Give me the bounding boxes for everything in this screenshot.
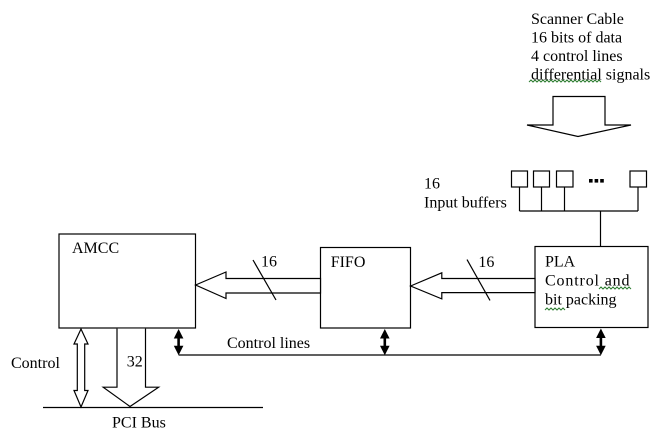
black double arrow PLA to control bus [596,329,606,356]
hollow arrow PLA to FIFO [411,273,535,299]
bus slash 2 [467,260,490,301]
wire buffers to PLA [600,211,602,247]
svg-text:AMCC: AMCC [72,240,119,257]
buffer stub wire 2 [541,187,543,211]
svg-text:PCI Bus: PCI Bus [112,415,166,432]
PCI bus wire [43,407,263,409]
control lines bus wire [179,354,601,356]
buffer bus wire [520,210,639,212]
buffer stub wire 1 [519,187,521,211]
black double arrow FIFO to control bus [380,329,390,355]
grammar squiggle under bit [545,308,565,310]
scanner cable caption [531,11,650,84]
svg-text:16 bits of data: 16 bits of data [531,30,622,47]
svg-text:16: 16 [424,175,440,192]
buffer stub wire 3 [564,187,566,211]
svg-text:32: 32 [127,353,143,370]
svg-text:FIFO: FIFO [331,254,366,271]
grammar squiggle under differential [529,80,601,82]
input buffer square 2 [534,171,550,187]
label 16 input buffers [424,175,507,211]
block arrow down from scanner cable [527,97,631,137]
PLA label [545,254,630,309]
grammar squiggle under and [599,287,631,289]
svg-text:PLA: PLA [545,254,576,271]
block arrow 32 AMCC to PCI bus [103,329,158,407]
svg-text:Input buffers: Input buffers [424,195,507,212]
buffer stub wire 4 [637,187,639,211]
svg-text:differential signals: differential signals [531,67,650,84]
box AMCC [59,234,196,328]
black double arrow AMCC to control bus [174,329,184,355]
input buffer square 3 [557,171,574,187]
input buffer square 1 [512,171,528,187]
svg-text:Control: Control [11,355,60,372]
svg-text:4 control lines: 4 control lines [531,48,623,65]
svg-text:Control lines: Control lines [227,335,310,352]
box FIFO [321,248,411,329]
hollow arrow FIFO to AMCC [196,272,321,299]
ellipsis dots [589,179,604,183]
svg-text:16: 16 [261,253,277,270]
svg-text:Scanner Cable: Scanner Cable [531,11,624,28]
input buffer square 4 [630,171,647,187]
svg-text:bit packing: bit packing [545,292,617,309]
bus slash 1 [253,260,276,300]
box PLA [535,247,648,328]
hollow double arrow AMCC to PCI bus (control) [74,329,88,407]
svg-text:16: 16 [478,254,494,271]
